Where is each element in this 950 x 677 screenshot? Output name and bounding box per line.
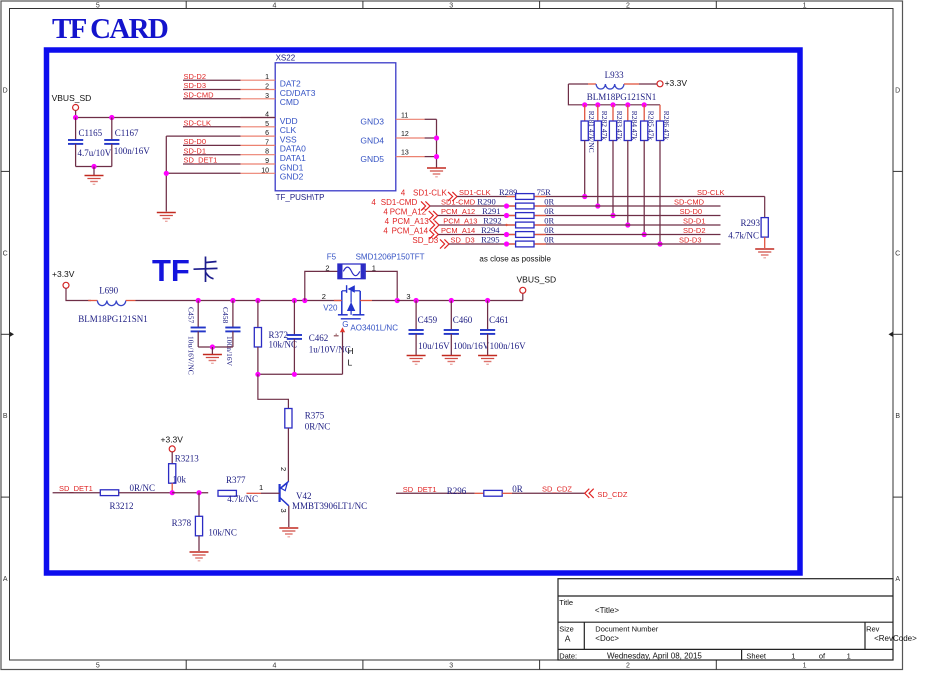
svg-text:10: 10 (261, 167, 269, 174)
svg-text:SD-D1: SD-D1 (184, 146, 207, 155)
junction gate R372 (255, 372, 260, 377)
wire row SD_D3 (449, 243, 721, 245)
junction C459 (414, 298, 419, 303)
zone ticks bottom (185, 660, 187, 670)
wire caps bottom (76, 166, 112, 168)
svg-text:Wednesday, April 08, 2015: Wednesday, April 08, 2015 (607, 652, 702, 661)
svg-text:SD-D2: SD-D2 (184, 72, 207, 81)
resistor R375 (285, 409, 292, 429)
svg-text:SD1-CMD: SD1-CMD (381, 198, 418, 207)
wire net SD_DET1 (183, 163, 241, 165)
svg-text:9: 9 (265, 158, 269, 165)
V20 body diode (348, 285, 355, 293)
svg-text:BLM18PG121SN1: BLM18PG121SN1 (587, 92, 657, 102)
wire R375 to V42 (287, 428, 289, 481)
wire VSS vertical (165, 136, 167, 211)
svg-text:GND3: GND3 (360, 117, 384, 127)
connector XS22 body (275, 63, 396, 191)
junction R378 top (196, 490, 201, 495)
svg-text:L: L (348, 358, 353, 368)
svg-text:Date:: Date: (559, 652, 577, 661)
svg-text:SD-D0: SD-D0 (680, 207, 703, 216)
wire VBUS_SD to rail (75, 111, 77, 118)
svg-text:SD-D3: SD-D3 (679, 236, 702, 245)
svg-text:L690: L690 (99, 286, 118, 296)
pin 10 GND2 (241, 172, 276, 174)
svg-text:R375: R375 (305, 411, 325, 421)
junction VBUS rail 1 (73, 115, 78, 120)
junction R292 left small (505, 224, 507, 226)
svg-text:R293: R293 (740, 218, 760, 228)
resistor R372 (257, 301, 259, 328)
fuse F5 (305, 271, 338, 300)
svg-text:4: 4 (273, 662, 277, 669)
pin 8 DATA1 (241, 154, 276, 156)
wire +3.3V down (66, 288, 91, 300)
junction VBUS rail 2 (109, 115, 114, 120)
wire SD-CLK to R293 (764, 197, 766, 218)
capacitor C1167 (111, 118, 113, 141)
svg-text:2: 2 (626, 662, 630, 669)
ground under C460 (442, 356, 461, 365)
svg-text:4: 4 (371, 198, 376, 207)
svg-text:1u/10V/NC: 1u/10V/NC (309, 345, 351, 355)
svg-text:2: 2 (325, 263, 329, 272)
svg-text:SD_CDZ: SD_CDZ (542, 485, 572, 494)
svg-text:C460: C460 (453, 315, 473, 325)
ground under C457 C458 (203, 355, 222, 364)
pin 3 CMD (241, 98, 276, 100)
junction R290 left (504, 203, 509, 208)
svg-text:VBUS_SD: VBUS_SD (517, 275, 557, 285)
svg-text:A: A (3, 576, 8, 583)
junction GND5 (434, 154, 439, 159)
svg-text:10k: 10k (173, 475, 187, 485)
junction GND2 (164, 171, 169, 176)
capacitor C458 (232, 301, 234, 328)
capacitor C457 (197, 301, 199, 328)
svg-text:C459: C459 (418, 315, 438, 325)
junction C460 (449, 298, 454, 303)
power port VBUS_SD right (520, 287, 526, 293)
wire SD_DET1 row left (53, 492, 101, 494)
svg-text:10k/NC: 10k/NC (208, 527, 237, 537)
svg-text:4.7u/10V: 4.7u/10V (78, 148, 112, 158)
wire net SD-D0 (183, 144, 241, 146)
resistor R283 (610, 102, 615, 107)
svg-text:8: 8 (265, 149, 269, 156)
zone ticks left (1, 170, 10, 172)
resistor R3213 (171, 452, 173, 464)
svg-text:0R: 0R (544, 225, 554, 235)
resistor R281 (582, 102, 587, 107)
ground under C459 (407, 356, 426, 365)
svg-text:C461: C461 (489, 315, 509, 325)
wire GND2 pin10 (166, 172, 240, 174)
resistor R285 (642, 102, 647, 107)
svg-text:C457: C457 (187, 307, 196, 324)
ground under R293 (755, 249, 774, 258)
svg-text:SD1-CLK: SD1-CLK (413, 188, 447, 197)
junction C462 (292, 298, 297, 303)
svg-text:SD_DET1: SD_DET1 (59, 484, 93, 493)
svg-text:SD_DET1: SD_DET1 (184, 156, 218, 165)
wire SD_DET1 right row (396, 492, 475, 494)
svg-text:Size: Size (559, 625, 574, 634)
junction R3213 bottom (170, 490, 175, 495)
wire net SD-CLK (183, 126, 241, 128)
svg-text:Title: Title (559, 598, 573, 607)
svg-text:GND2: GND2 (280, 172, 304, 182)
svg-text:SD-D1: SD-D1 (683, 217, 706, 226)
power port +3.3V rail (63, 282, 69, 288)
svg-text:1: 1 (791, 652, 795, 661)
svg-text:0R: 0R (544, 216, 554, 226)
svg-text:4: 4 (273, 2, 277, 9)
wire GND4 to vertical (425, 137, 437, 139)
svg-text:C458: C458 (221, 307, 230, 324)
wire net SD-D1 (183, 154, 241, 156)
junction C457 (196, 298, 201, 303)
svg-text:R286 47k: R286 47k (662, 111, 671, 141)
V20 bottom plates (338, 314, 348, 316)
title block frame (558, 579, 893, 660)
svg-text:R289: R289 (499, 187, 517, 197)
svg-text:GND4: GND4 (360, 135, 384, 145)
svg-text:R3213: R3213 (175, 454, 200, 464)
capacitor C460 (450, 301, 452, 331)
svg-text:C1165: C1165 (79, 128, 103, 138)
junction R291 left (504, 213, 509, 218)
wire VSS pin6 (166, 135, 240, 137)
svg-text:C: C (3, 250, 8, 257)
svg-text:13: 13 (401, 150, 409, 157)
svg-text:SD_DET1: SD_DET1 (403, 485, 437, 494)
ground under VSS (157, 213, 176, 222)
ground under C1165 C1167 (85, 176, 104, 185)
svg-text:0R/NC: 0R/NC (130, 483, 156, 493)
svg-text:of: of (819, 652, 826, 661)
svg-text:3: 3 (449, 662, 453, 669)
svg-text:SMD1206P150TFT: SMD1206P150TFT (356, 252, 425, 261)
junction R372 (255, 298, 260, 303)
resistor R282 (595, 102, 600, 107)
junction gate C462 (292, 372, 297, 377)
svg-text:0R: 0R (544, 206, 554, 216)
svg-text:SD1-CMD: SD1-CMD (441, 198, 476, 207)
svg-text:3: 3 (406, 292, 410, 301)
wire pullup rail (568, 84, 660, 105)
pin 5 CLK (241, 126, 276, 128)
capacitor C462 (293, 301, 295, 336)
wire row SD1-CLK (457, 196, 765, 198)
svg-text:SD-D2: SD-D2 (683, 226, 706, 235)
junction C458 (230, 298, 235, 303)
svg-text:MMBT3906LT1/NC: MMBT3906LT1/NC (292, 501, 367, 511)
svg-text:100n/16V: 100n/16V (114, 146, 151, 156)
inductor L933 (568, 83, 588, 85)
svg-text:1: 1 (847, 652, 851, 661)
svg-text:Document Number: Document Number (595, 625, 658, 634)
svg-text:R285 47k: R285 47k (646, 111, 655, 141)
C462 polarity tick (334, 335, 339, 337)
svg-text:1: 1 (372, 263, 376, 272)
svg-text:SD_D3: SD_D3 (451, 236, 475, 245)
svg-text:BLM18PG121SN1: BLM18PG121SN1 (78, 314, 148, 324)
svg-text:V20: V20 (323, 303, 338, 312)
svg-text:VBUS_SD: VBUS_SD (52, 93, 92, 103)
svg-text:TF: TF (152, 253, 190, 288)
svg-text:<RevCode>: <RevCode> (874, 634, 917, 643)
svg-text:G: G (342, 320, 348, 329)
resistor R284 (625, 102, 630, 107)
svg-text:100n/16V: 100n/16V (453, 341, 490, 351)
svg-text:PCM_A12: PCM_A12 (441, 207, 475, 216)
capacitor C1165 (75, 118, 77, 141)
svg-text:B: B (895, 413, 900, 420)
svg-text:3: 3 (449, 2, 453, 9)
pin 11 GND3 (396, 118, 425, 120)
wire C457 C458 bottom (198, 346, 233, 348)
svg-text:1: 1 (265, 74, 269, 81)
wire VDD rail (76, 117, 276, 119)
svg-text:4: 4 (401, 188, 406, 197)
resistor R3212 (100, 490, 118, 496)
mid arrow left (1, 333, 10, 335)
blue schematic border (47, 50, 801, 573)
wire gate bottom horizontal (258, 373, 343, 375)
svg-text:SD-CMD: SD-CMD (674, 198, 705, 207)
svg-text:R3212: R3212 (110, 501, 134, 511)
svg-text:C1167: C1167 (115, 128, 139, 138)
wire to SD_CDZ offpage (512, 492, 585, 494)
junction C461 (485, 298, 490, 303)
svg-text:2: 2 (279, 467, 288, 471)
svg-text:100n/16V: 100n/16V (490, 341, 527, 351)
ground under C461 (478, 356, 497, 365)
svg-text:+3.3V: +3.3V (52, 269, 75, 279)
power port +3.3V detect (169, 446, 175, 452)
svg-text:2: 2 (322, 292, 326, 301)
capacitor C461 (487, 301, 489, 331)
svg-text:2: 2 (626, 2, 630, 9)
svg-text:+3.3V: +3.3V (665, 78, 688, 88)
svg-text:0R: 0R (544, 235, 554, 245)
svg-text:F5: F5 (327, 252, 337, 261)
ground under R378 (190, 552, 209, 561)
svg-text:7: 7 (265, 139, 269, 146)
svg-text:0R: 0R (544, 197, 554, 207)
svg-text:D: D (3, 88, 8, 95)
capacitor C459 (415, 301, 417, 331)
svg-text:XS22: XS22 (276, 53, 296, 62)
svg-text:GND5: GND5 (360, 154, 384, 164)
svg-text:R291: R291 (482, 206, 500, 216)
svg-text:SD-D0: SD-D0 (184, 137, 207, 146)
pin 13 GND5 (396, 156, 425, 158)
V20 gate line (341, 318, 361, 320)
svg-text:5: 5 (96, 662, 100, 669)
svg-text:L933: L933 (605, 70, 624, 80)
svg-text:10u/16V/NC: 10u/16V/NC (187, 336, 196, 375)
svg-text:B: B (3, 413, 8, 420)
svg-text:R283 47k: R283 47k (615, 111, 624, 141)
wire row PCM_A13 (439, 224, 721, 226)
svg-text:R284 47k: R284 47k (630, 111, 639, 141)
svg-text:<Title>: <Title> (595, 606, 619, 615)
wire net SD-D2 (183, 79, 241, 81)
power port VBUS_SD left (73, 105, 79, 111)
pin 2 CD/DAT3 (241, 89, 276, 91)
svg-text:11: 11 (401, 112, 408, 119)
junction R294 left (504, 232, 509, 237)
svg-text:Rev: Rev (866, 625, 880, 634)
svg-text:PCM_A14: PCM_A14 (392, 226, 429, 235)
svg-text:R295: R295 (481, 235, 499, 245)
svg-text:5: 5 (96, 2, 100, 9)
wire to R375 (258, 374, 289, 408)
wire row SD1-CMD (430, 205, 721, 207)
resistor R378 (198, 493, 200, 517)
logo Chinese card glyph (194, 257, 218, 283)
svg-text:SD_CDZ: SD_CDZ (597, 490, 627, 499)
svg-text:PCM_A14: PCM_A14 (441, 226, 475, 235)
pin 1 DAT2 (241, 79, 276, 81)
transistor V20 AO3401 (342, 291, 360, 315)
svg-text:5: 5 (265, 121, 269, 128)
wire V20 gate down (342, 332, 344, 374)
ground right of XS22 (427, 168, 446, 177)
svg-text:4.7k/NC: 4.7k/NC (227, 494, 258, 504)
wire main rail left (136, 300, 342, 302)
svg-text:CMD: CMD (280, 97, 299, 107)
svg-text:3: 3 (265, 93, 269, 100)
svg-text:100n/16V: 100n/16V (225, 336, 234, 367)
svg-text:V42: V42 (296, 491, 312, 501)
svg-text:2: 2 (265, 84, 269, 91)
svg-text:PCM_A13: PCM_A13 (443, 217, 477, 226)
svg-text:6: 6 (265, 130, 269, 137)
svg-text:+3.3V: +3.3V (161, 435, 184, 445)
V20 gate arrow (340, 327, 345, 332)
svg-text:R292: R292 (483, 216, 501, 226)
svg-text:R290: R290 (477, 197, 495, 207)
svg-text:75R: 75R (537, 187, 552, 197)
wire row PCM_A14 (438, 234, 720, 236)
svg-text:D: D (895, 88, 900, 95)
svg-text:0R/NC: 0R/NC (305, 422, 331, 432)
resistor R377 (218, 490, 236, 496)
svg-text:C: C (895, 250, 900, 257)
zone ticks top (185, 1, 187, 9)
svg-text:PCM_A13: PCM_A13 (392, 217, 429, 226)
junction caps457 gnd (210, 344, 215, 349)
junction GND4 (434, 135, 439, 140)
svg-text:1: 1 (803, 2, 807, 9)
wire to R377 (172, 492, 208, 494)
svg-text:R282 47k: R282 47k (600, 111, 609, 141)
svg-text:3: 3 (279, 509, 288, 513)
svg-text:12: 12 (401, 131, 409, 138)
svg-text:AO3401L/NC: AO3401L/NC (350, 323, 398, 332)
junction V20 right (395, 298, 400, 303)
V20 stubs (334, 300, 342, 302)
svg-text:10k/NC: 10k/NC (269, 340, 298, 350)
svg-text:SD-CLK: SD-CLK (184, 119, 212, 128)
junction R295 left (504, 241, 509, 246)
wire net SD-D3 (183, 89, 241, 91)
resistor R293 (761, 218, 768, 238)
junction caps gnd (91, 164, 96, 169)
pin 4 VDD (241, 117, 276, 119)
wire VBUS_SD up (522, 293, 524, 300)
svg-text:A: A (895, 576, 900, 583)
svg-text:4: 4 (383, 207, 388, 216)
wire gnd vertical right of XS22 (436, 119, 438, 167)
pin 7 DATA0 (241, 144, 276, 146)
pin 9 GND1 (241, 163, 276, 165)
V20 channel arrow (347, 302, 355, 311)
svg-text:4.7k/NC: 4.7k/NC (728, 231, 759, 241)
svg-text:R296: R296 (447, 486, 467, 496)
svg-text:SD-CMD: SD-CMD (184, 91, 215, 100)
power port +3.3V pullups (657, 81, 663, 87)
wire row PCM_A12 (438, 215, 721, 217)
wire net SD-CMD (183, 98, 241, 100)
svg-text:R377: R377 (226, 475, 246, 485)
svg-text:C462: C462 (309, 333, 329, 343)
svg-text:R372: R372 (269, 330, 289, 340)
svg-text:10u/16V: 10u/16V (418, 341, 450, 351)
ground under V42 (279, 528, 298, 537)
wire V42 emitter down (288, 506, 290, 527)
pin 12 GND4 (396, 137, 425, 139)
zone ticks right (893, 170, 903, 172)
svg-text:TF CARD: TF CARD (52, 13, 168, 45)
wire V42 base (247, 492, 262, 494)
wire GND3 to vertical (425, 118, 437, 120)
svg-text:4: 4 (385, 217, 390, 226)
svg-text:0R: 0R (512, 484, 523, 494)
svg-text:as close as possible: as close as possible (479, 255, 551, 264)
svg-text:SD_D3: SD_D3 (412, 236, 438, 245)
resistor R286 (659, 105, 661, 121)
svg-text:TF_PUSH\TP: TF_PUSH\TP (276, 193, 325, 202)
svg-text:1: 1 (803, 662, 807, 669)
svg-text:R294: R294 (481, 225, 500, 235)
svg-text:Sheet: Sheet (746, 652, 767, 661)
inductor L690 (88, 300, 97, 302)
svg-text:H: H (348, 346, 354, 356)
svg-text:R378: R378 (172, 518, 192, 528)
mid arrow right (893, 333, 903, 335)
pin 6 VSS (241, 135, 276, 137)
off-page connector SD_CDZ (585, 489, 594, 498)
svg-text:1: 1 (259, 483, 263, 492)
junction F5 left (302, 298, 307, 303)
wire main rail right (397, 300, 523, 302)
wire GND5 to vertical (425, 156, 437, 158)
svg-text:SD-D3: SD-D3 (184, 81, 207, 90)
transistor V42 MMBT3906 (279, 484, 281, 502)
svg-text:<Doc>: <Doc> (595, 634, 619, 643)
svg-text:4: 4 (383, 226, 388, 235)
svg-text:A: A (565, 634, 571, 644)
svg-text:PCM_A12: PCM_A12 (390, 207, 427, 216)
svg-text:SD-CLK: SD-CLK (697, 188, 725, 197)
